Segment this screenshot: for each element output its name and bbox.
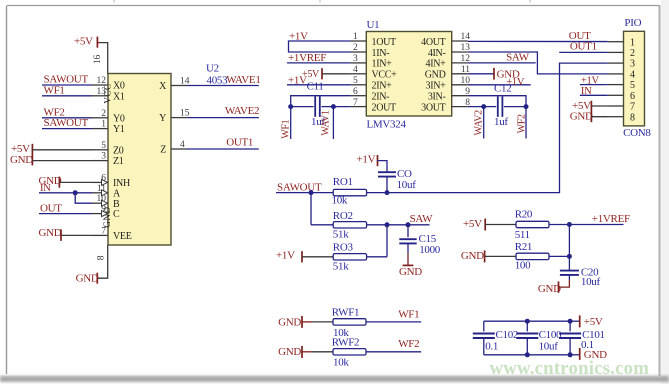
- U1 pin stubs: [351, 41, 468, 107]
- svg-text:+5V: +5V: [463, 218, 482, 230]
- svg-text:RO1: RO1: [333, 176, 353, 188]
- svg-text:+1V: +1V: [357, 153, 376, 165]
- svg-text:+5V: +5V: [11, 143, 30, 155]
- svg-text:C100: C100: [539, 329, 562, 341]
- svg-text:1000: 1000: [419, 244, 441, 256]
- junction dots cap bank: [525, 319, 530, 324]
- svg-text:RO2: RO2: [333, 210, 353, 222]
- svg-text:10uf: 10uf: [539, 341, 559, 353]
- svg-text:VCC+: VCC+: [372, 70, 398, 81]
- wire c20 bottom to gnd: [568, 275, 570, 280]
- junction dot saw c15: [406, 222, 411, 227]
- wire wf1 pin13: [42, 95, 92, 97]
- sheet border frame: [661, 0, 669, 384]
- capacitor C20: [560, 270, 579, 272]
- svg-text:2: 2: [630, 48, 635, 59]
- svg-text:2: 2: [353, 43, 358, 53]
- svg-text:OUT: OUT: [40, 202, 62, 214]
- wire ro1 right: [367, 192, 387, 194]
- svg-text:3IN-: 3IN-: [428, 92, 446, 103]
- svg-text:7: 7: [353, 98, 358, 108]
- capacitor C12: [497, 96, 499, 117]
- wire z0: [32, 149, 92, 151]
- svg-text:1OUT: 1OUT: [372, 37, 397, 48]
- svg-text:X0: X0: [113, 81, 125, 92]
- svg-text:1uf: 1uf: [494, 116, 508, 128]
- resistor R20: [516, 221, 549, 227]
- svg-text:GND: GND: [278, 346, 301, 358]
- svg-text:+1VREF: +1VREF: [592, 213, 630, 225]
- wire ro3 left: [302, 256, 333, 258]
- svg-text:51k: 51k: [333, 260, 349, 272]
- svg-text:GND: GND: [570, 111, 593, 123]
- svg-text:R21: R21: [515, 241, 532, 253]
- svg-text:GND: GND: [39, 227, 62, 239]
- svg-text:4IN+: 4IN+: [426, 59, 447, 70]
- wire pin16 vcc: [100, 43, 108, 74]
- svg-text:3OUT: 3OUT: [421, 102, 446, 113]
- svg-text:1IN+: 1IN+: [372, 59, 393, 70]
- resistor RWF1: [333, 319, 366, 325]
- svg-text:WF1: WF1: [398, 308, 419, 320]
- wire +1vref pin3: [287, 62, 351, 64]
- wire cap bank top rail: [484, 320, 570, 322]
- power GND at U1 pin11: [468, 73, 494, 75]
- wire ro2 node to C15: [387, 224, 430, 226]
- wire wf2 pin2: [42, 117, 92, 119]
- svg-text:Z0: Z0: [113, 145, 124, 156]
- svg-text:INH: INH: [113, 178, 130, 189]
- svg-text:7: 7: [630, 102, 635, 113]
- wire vee: [61, 234, 92, 236]
- svg-text:GND: GND: [76, 273, 99, 285]
- svg-text:5: 5: [353, 76, 358, 86]
- wire cap bank bottom rail: [484, 354, 570, 356]
- wire 2OUT row through C11: [333, 106, 350, 108]
- junction dot C12 left: [481, 104, 486, 109]
- svg-text:GND: GND: [399, 266, 422, 278]
- junction dot C12 right: [524, 104, 529, 109]
- svg-text:2OUT: 2OUT: [372, 102, 397, 113]
- power bar PIO pins 7-8: [590, 101, 592, 123]
- svg-text:4IN-: 4IN-: [428, 48, 446, 59]
- resistor RO3: [333, 254, 366, 260]
- power +5V cap bank: [570, 320, 580, 322]
- svg-text:C102: C102: [496, 329, 519, 341]
- svg-text:X1: X1: [113, 91, 125, 102]
- svg-text:X: X: [159, 81, 167, 92]
- wire in pio6: [580, 94, 608, 96]
- svg-text:C12: C12: [494, 82, 511, 94]
- U2 left pin stubs: [92, 85, 108, 235]
- svg-text:16: 16: [93, 55, 103, 64]
- svg-text:5: 5: [630, 80, 635, 91]
- svg-text:Y1: Y1: [113, 124, 125, 135]
- svg-text:3: 3: [101, 152, 106, 162]
- power GND at U2 pin 8: [96, 273, 98, 284]
- svg-text:WAVE2: WAVE2: [225, 105, 259, 117]
- wire Z to OUT1: [187, 148, 259, 150]
- svg-text:3IN+: 3IN+: [426, 81, 447, 92]
- svg-text:10uf: 10uf: [397, 179, 417, 191]
- wire +1v pin5: [287, 84, 351, 86]
- wire +1v pio5: [580, 84, 608, 86]
- wire IN branch to pin B: [75, 193, 92, 203]
- svg-text:1: 1: [101, 120, 106, 130]
- wire 3IN- to C12 right node: [468, 96, 526, 107]
- net stub WAV2 vertical: [483, 107, 485, 139]
- svg-text:100: 100: [515, 259, 531, 271]
- svg-text:2IN+: 2IN+: [372, 81, 393, 92]
- svg-text:C: C: [113, 209, 120, 220]
- wire r21 left: [485, 255, 516, 257]
- svg-text:+5V: +5V: [74, 36, 93, 48]
- wire rwf1 left: [302, 321, 312, 323]
- svg-text:CON8: CON8: [623, 127, 651, 139]
- svg-text:10uf: 10uf: [581, 276, 601, 288]
- junction dot C11 left: [288, 104, 293, 109]
- svg-text:GND: GND: [10, 154, 33, 166]
- wire Y to WAVE2: [187, 117, 259, 119]
- wire ro2 right: [367, 224, 387, 226]
- resistor R21: [516, 253, 549, 259]
- power bar for Z0/Z1: [31, 144, 33, 166]
- wire SAW to PIO pin3 and down to divider: [387, 63, 608, 193]
- capacitor C102: [483, 321, 485, 331]
- svg-text:6: 6: [630, 91, 635, 102]
- svg-text:WAVE1: WAVE1: [226, 74, 260, 86]
- svg-text:4: 4: [353, 65, 358, 75]
- PIO pin stubs: [608, 42, 624, 117]
- svg-text:R20: R20: [515, 208, 533, 220]
- capacitor C11: [314, 96, 316, 117]
- net stub WAV1 vertical: [332, 107, 334, 139]
- wire inh: [59, 181, 92, 183]
- junction dot sawout: [309, 190, 314, 195]
- svg-text:OUT1: OUT1: [226, 136, 253, 148]
- svg-text:WF1: WF1: [44, 84, 65, 96]
- junction dot IN: [73, 190, 78, 195]
- svg-text:B: B: [113, 199, 120, 210]
- svg-text:8: 8: [97, 255, 107, 260]
- wire r21 right: [549, 255, 569, 257]
- svg-text:10k: 10k: [333, 356, 349, 368]
- svg-text:WF1: WF1: [280, 119, 291, 138]
- svg-text:2: 2: [101, 109, 106, 119]
- connector PIO body: [624, 31, 645, 126]
- power GND below C15: [403, 264, 414, 266]
- svg-text:6: 6: [353, 87, 358, 97]
- svg-text:SAW: SAW: [410, 213, 434, 225]
- svg-text:Y0: Y0: [113, 113, 125, 124]
- capacitor C15: [407, 225, 409, 237]
- capacitor C100: [526, 321, 528, 331]
- wire 4IN+ SAW: [468, 62, 536, 64]
- wire rwf1 right WF1: [366, 321, 421, 323]
- wire 1OUT to 1IN- feedback: [289, 41, 351, 52]
- svg-text:511: 511: [515, 229, 530, 241]
- svg-text:1: 1: [630, 37, 635, 48]
- svg-text:OUT1: OUT1: [570, 41, 597, 53]
- wire 4OUT to PIO pin1: [468, 40, 608, 42]
- wire pio8: [591, 116, 607, 118]
- svg-text:GND: GND: [278, 317, 301, 329]
- wire sawout node: [276, 192, 333, 194]
- svg-text:RWF2: RWF2: [332, 337, 360, 349]
- wire 2IN- to C11 left node: [291, 96, 351, 107]
- svg-text:+1V: +1V: [276, 249, 295, 261]
- svg-text:VEE: VEE: [113, 231, 132, 242]
- wire z1: [32, 160, 92, 162]
- svg-text:RWF1: RWF1: [332, 307, 360, 319]
- svg-text:RO3: RO3: [333, 241, 354, 253]
- svg-text:12: 12: [97, 76, 107, 86]
- IC U2 4053 body: [108, 74, 171, 246]
- svg-text:Y: Y: [159, 113, 166, 124]
- svg-text:+5V: +5V: [584, 316, 603, 328]
- svg-text:4053: 4053: [207, 74, 229, 86]
- U2 left pin numbers: [97, 76, 107, 236]
- U2 pin 8 wire to ground: [98, 245, 108, 278]
- svg-text:LMV324: LMV324: [367, 118, 407, 130]
- svg-text:4: 4: [180, 140, 185, 150]
- svg-text:7: 7: [101, 226, 106, 236]
- wire ro2 left: [311, 224, 333, 226]
- resistor RO2: [333, 222, 366, 228]
- net stub WF1 vertical: [290, 107, 292, 139]
- wire CO bottom: [386, 177, 388, 193]
- svg-text:GND: GND: [425, 70, 446, 81]
- svg-text:1: 1: [353, 32, 358, 42]
- U1 pin numbers: [353, 32, 470, 108]
- wire X to WAVE1: [187, 85, 259, 87]
- wire out pin C: [39, 213, 92, 215]
- svg-text:WAV1: WAV1: [320, 110, 331, 136]
- svg-text:10k: 10k: [332, 194, 348, 206]
- svg-text:PIO: PIO: [624, 17, 641, 29]
- svg-text:0.1: 0.1: [485, 341, 498, 353]
- wire to +1VREF: [569, 224, 623, 226]
- svg-text:14: 14: [461, 32, 471, 42]
- svg-text:A: A: [113, 188, 121, 199]
- wire 4IN- to PIO pin4: [468, 52, 608, 74]
- wire ro3 right: [367, 256, 387, 258]
- wire sawout pin1: [42, 128, 92, 130]
- wire IN to pins A and B: [39, 192, 92, 194]
- U2 right pin numbers: [180, 77, 190, 151]
- junction dot r20 node: [567, 222, 572, 227]
- net stub WF2 vertical: [525, 107, 527, 139]
- svg-text:3: 3: [630, 59, 635, 70]
- wire sawout pin12: [42, 84, 92, 86]
- wire rwf2 right WF2: [366, 351, 421, 353]
- wire sawout down to RO2: [310, 193, 312, 225]
- svg-text:C11: C11: [307, 81, 324, 93]
- svg-text:U2: U2: [206, 63, 219, 75]
- svg-text:4: 4: [630, 70, 635, 81]
- svg-text:WF2: WF2: [516, 114, 527, 133]
- svg-text:U1: U1: [367, 19, 380, 31]
- U2 pin names: [102, 81, 167, 242]
- svg-text:8: 8: [630, 112, 635, 123]
- svg-text:WF2: WF2: [398, 338, 419, 350]
- wire r20 right: [549, 224, 569, 226]
- svg-text:GND: GND: [538, 283, 561, 295]
- svg-text:WAV2: WAV2: [474, 110, 485, 136]
- wire pio7: [591, 105, 607, 107]
- junction dot CO node: [385, 190, 390, 195]
- power GND at C20: [558, 281, 560, 292]
- svg-text:CO: CO: [397, 168, 412, 180]
- svg-text:Z: Z: [160, 145, 166, 156]
- U2 right pin stubs: [171, 86, 187, 150]
- IC U1 LMV324 body: [366, 32, 451, 117]
- power GND cap bank: [570, 354, 580, 356]
- net label +1V at U1 pin10: [468, 84, 531, 86]
- wire OUT1 to PIO pin2: [559, 51, 607, 53]
- resistor RO1: [333, 189, 366, 195]
- svg-text:1IN-: 1IN-: [372, 48, 390, 59]
- wire r20 left: [485, 224, 516, 226]
- U2 input arrows on INH A B C: [102, 179, 108, 216]
- U1 pin names: [372, 37, 447, 114]
- wire r20 node down to C20: [568, 225, 570, 271]
- svg-text:4OUT: 4OUT: [421, 37, 446, 48]
- svg-text:51k: 51k: [333, 228, 349, 240]
- svg-text:Z1: Z1: [113, 156, 124, 167]
- svg-text:5: 5: [101, 141, 106, 151]
- capacitor CO: [378, 171, 396, 173]
- wire +1v to CO: [378, 161, 388, 172]
- wire ro2 node down to RO3: [386, 225, 388, 257]
- junction dot ro2 node: [385, 222, 390, 227]
- svg-text:www.cntronics.com: www.cntronics.com: [490, 358, 650, 379]
- PIO pin numbers: [630, 37, 635, 123]
- svg-text:3: 3: [353, 54, 358, 64]
- capacitor C101: [569, 321, 571, 331]
- svg-text:SAWOUT: SAWOUT: [44, 117, 89, 129]
- junction dot r21 node: [567, 254, 572, 259]
- svg-text:2IN-: 2IN-: [372, 92, 390, 103]
- svg-text:SAWOUT: SAWOUT: [277, 182, 322, 194]
- wire rwf2 left: [302, 351, 312, 353]
- junction dot C11 right: [331, 104, 336, 109]
- svg-text:GND: GND: [461, 250, 484, 262]
- wire 3OUT row through C12: [468, 106, 484, 108]
- svg-text:13: 13: [97, 87, 107, 97]
- resistor RWF2: [333, 349, 366, 355]
- svg-text:SAW: SAW: [506, 51, 530, 63]
